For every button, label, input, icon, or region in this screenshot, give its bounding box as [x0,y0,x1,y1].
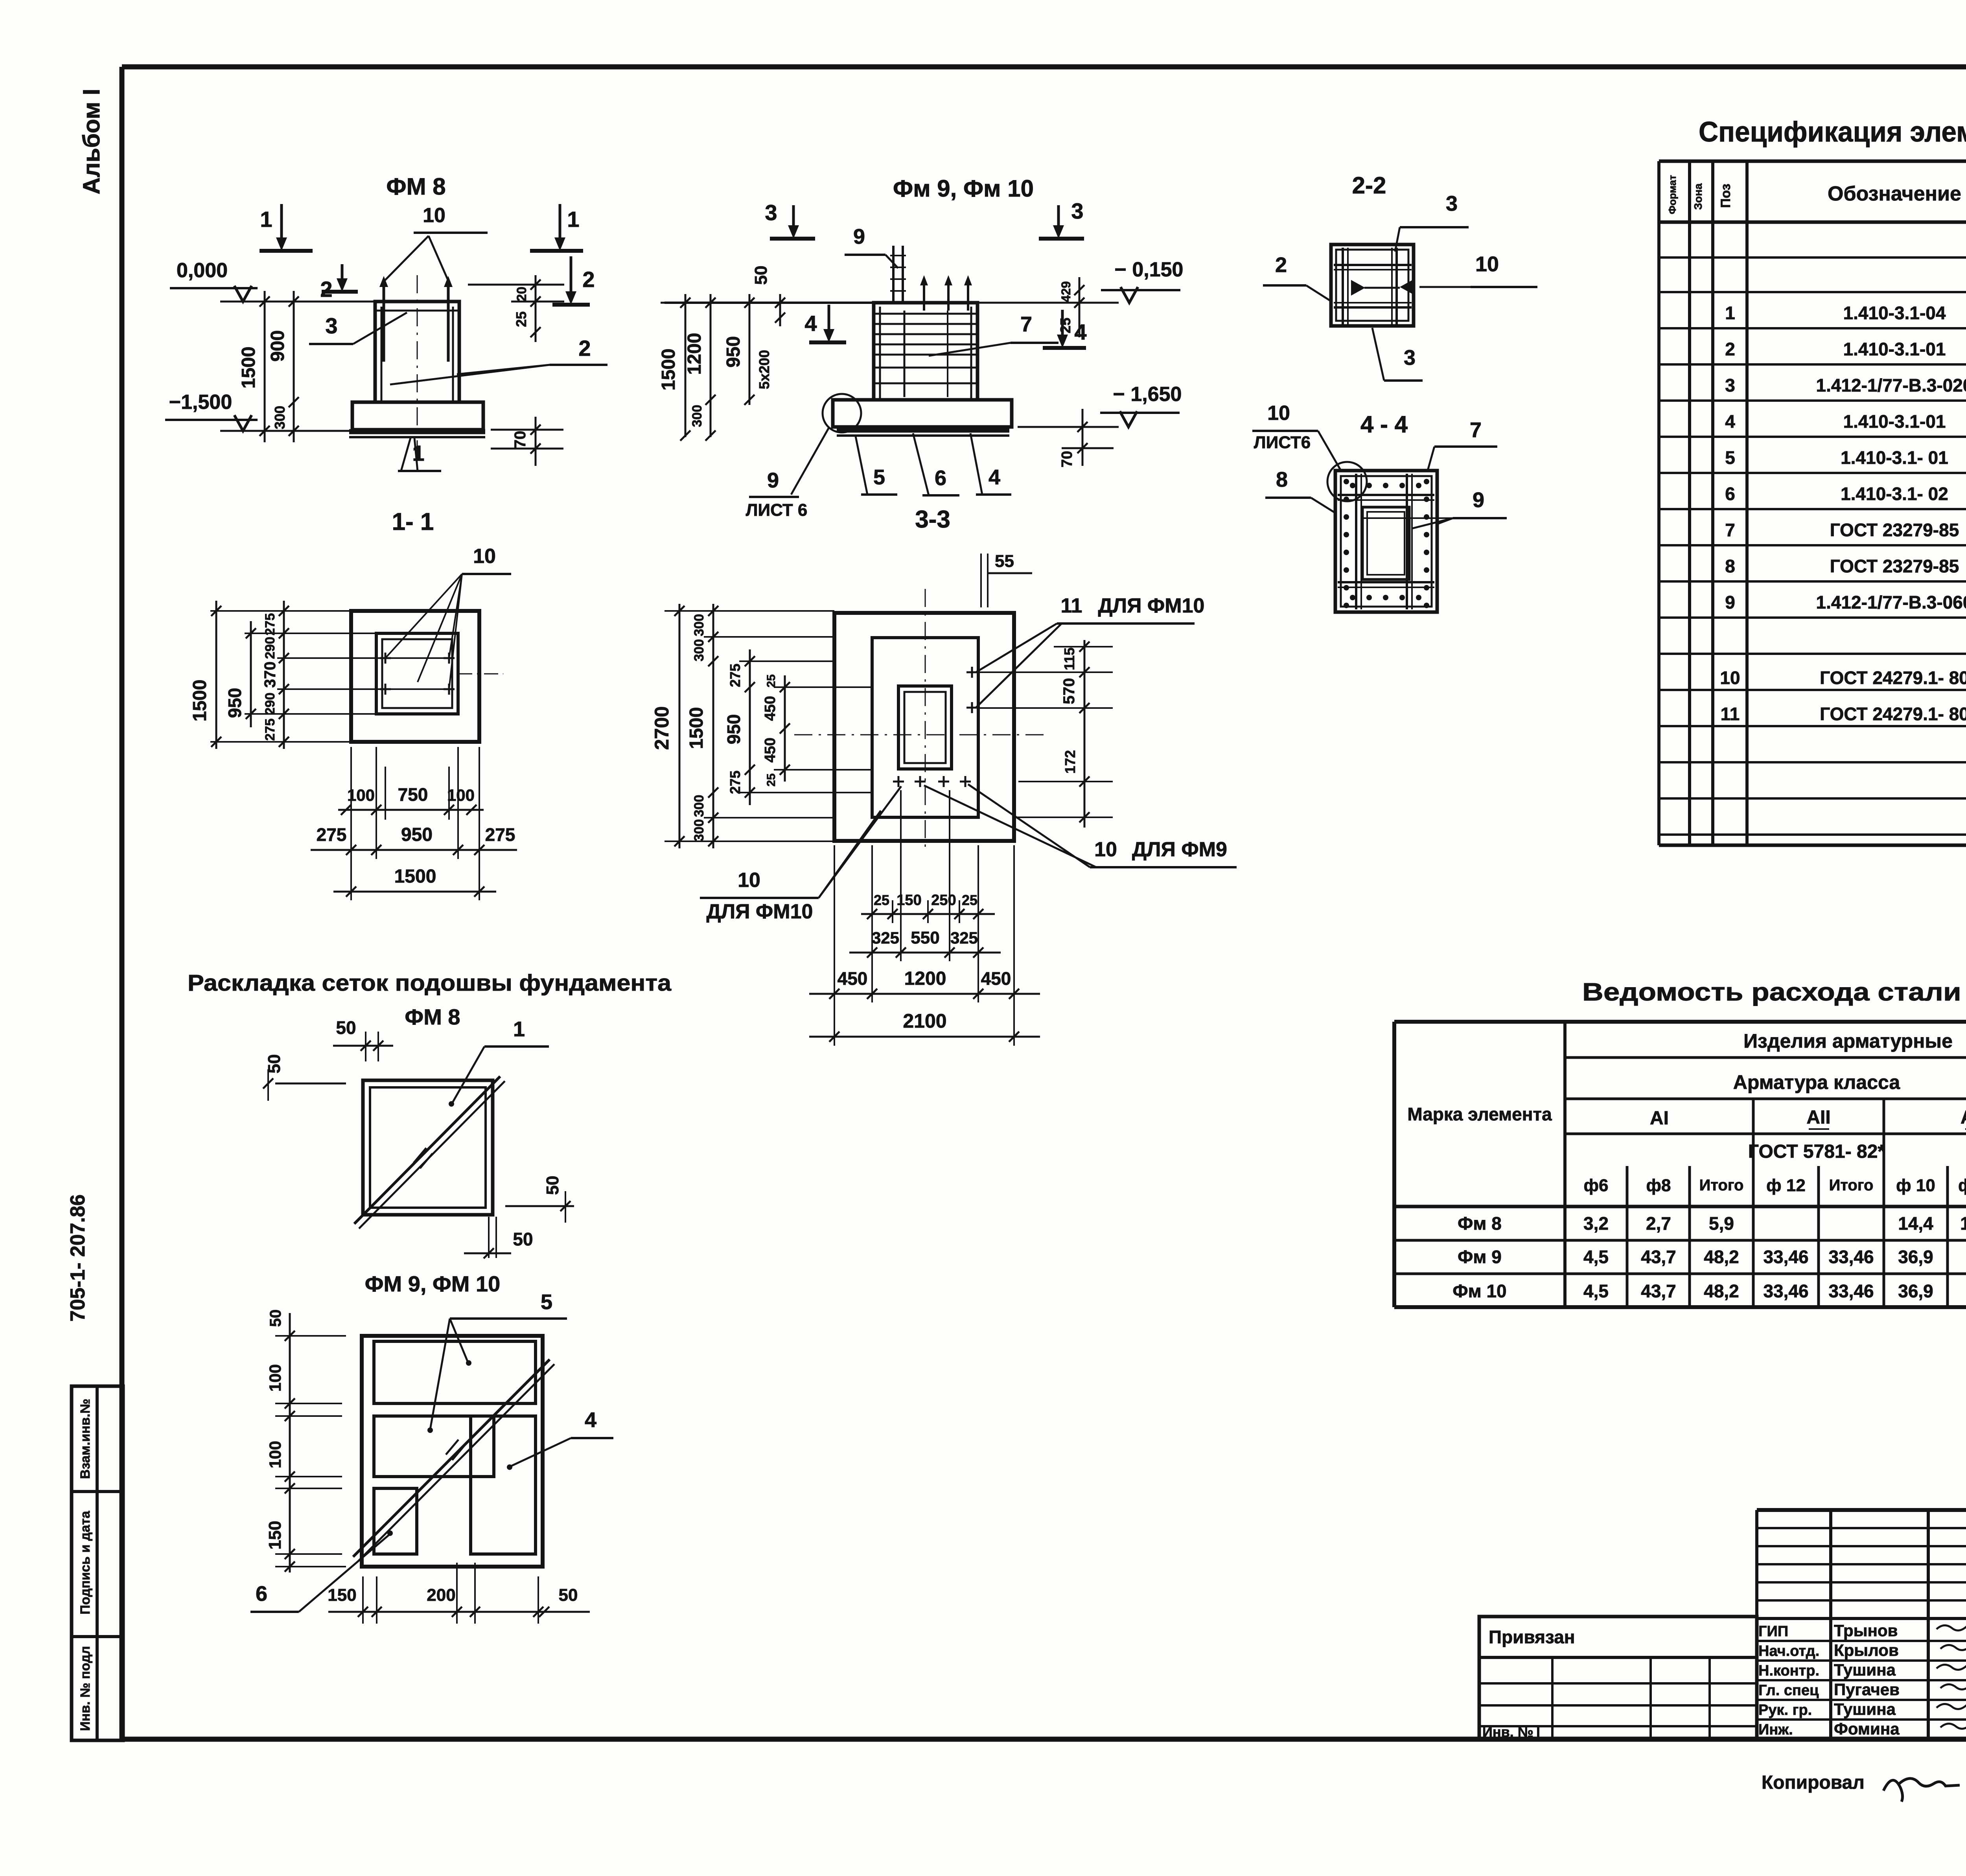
svg-text:50: 50 [513,1229,533,1249]
svg-text:11: 11 [1061,594,1082,617]
svg-text:33,46: 33,46 [1763,1247,1808,1267]
plan 1-1 outer square [351,611,479,742]
svg-text:70: 70 [1059,451,1075,467]
svg-text:3: 3 [1071,199,1083,223]
svg-text:Подпись и дата: Подпись и дата [78,1510,93,1615]
svg-text:1500: 1500 [394,866,436,887]
svg-text:10: 10 [423,204,445,227]
dim 70 bottom right [535,417,537,466]
svg-text:900: 900 [267,330,288,362]
svg-text:5,9: 5,9 [1709,1213,1734,1234]
svg-text:ф 10: ф 10 [1896,1176,1935,1195]
svg-text:55: 55 [995,552,1014,571]
FM8 axis line [417,275,418,458]
svg-text:25: 25 [513,311,529,327]
svg-text:Взам.инв.№: Взам.инв.№ [78,1399,93,1479]
svg-text:Привязан: Привязан [1489,1627,1575,1647]
FM8 mesh square [363,1080,493,1215]
svg-text:Копировал: Копировал [1762,1772,1865,1793]
svg-text:300: 300 [272,406,288,429]
svg-text:10: 10 [1720,668,1740,688]
svg-text:ФМ 8: ФМ 8 [405,1004,460,1029]
svg-text:10: 10 [1475,252,1499,276]
svg-text:275: 275 [727,664,743,687]
plan 3-3 inset [872,638,978,817]
plan 1-1 bolts [380,657,391,659]
svg-text:Поз: Поз [1718,184,1733,208]
svg-text:ф 12: ф 12 [1766,1176,1806,1195]
plan 1-1 bottom dims [338,809,484,811]
svg-text:2100: 2100 [903,1010,946,1032]
svg-text:150: 150 [265,1521,285,1549]
svg-text:1500: 1500 [686,707,707,749]
svg-text:7: 7 [1020,313,1032,336]
svg-text:3: 3 [325,313,337,338]
mesh 9 sticking up [892,246,895,303]
svg-text:Арматура класса: Арматура класса [1733,1071,1901,1093]
4-4 mesh rect [1335,471,1437,612]
plan 1-1 ext lines bottom [350,747,352,900]
svg-text:325: 325 [872,929,899,947]
pillar body [874,303,977,400]
pривязан block [1479,1617,1757,1739]
steel table grid [1394,1020,1966,1024]
svg-text:ЛИСТ6: ЛИСТ6 [1254,433,1311,452]
svg-text:43,7: 43,7 [1641,1247,1676,1267]
svg-text:ф8: ф8 [1646,1176,1671,1195]
svg-text:7: 7 [1470,418,1482,442]
svg-text:ДЛЯ ФМ10: ДЛЯ ФМ10 [707,900,813,923]
svg-text:3: 3 [1725,375,1735,395]
svg-text:50: 50 [267,1310,284,1327]
svg-text:Ведомость расхода стали на: Ведомость расхода стали на элемент, кг [1582,978,1966,1006]
svg-text:Фомина: Фомина [1834,1720,1900,1738]
svg-text:25: 25 [874,892,889,908]
small dims right of column top [535,275,537,342]
svg-text:1.410-3.1-01: 1.410-3.1-01 [1843,411,1946,432]
svg-text:25: 25 [1057,318,1073,333]
svg-text:А III: А III [1960,1107,1966,1128]
svg-text:3,2: 3,2 [1583,1213,1609,1234]
plan 1-1 pillar [376,633,458,714]
svg-text:6: 6 [935,466,946,490]
svg-text:370: 370 [261,662,279,688]
svg-text:275: 275 [263,719,278,741]
svg-text:1: 1 [513,1017,525,1041]
detail circle [823,394,861,432]
svg-text:Тушина: Тушина [1834,1700,1896,1718]
svg-text:10: 10 [473,545,496,568]
svg-text:275: 275 [485,824,515,845]
svg-text:Трынов: Трынов [1834,1621,1898,1640]
svg-text:450: 450 [838,968,868,989]
svg-text:300: 300 [692,795,707,817]
svg-text:2: 2 [582,267,595,292]
svg-text:1.410-3.1- 01: 1.410-3.1- 01 [1841,447,1948,468]
sheet frame [122,64,1966,70]
svg-text:Итого: Итого [1699,1177,1744,1194]
svg-text:950: 950 [225,688,245,718]
svg-text:Пугачев: Пугачев [1834,1680,1900,1699]
FM9/10 left dims [289,1313,291,1573]
svg-text:36,9: 36,9 [1898,1281,1933,1301]
svg-text:200: 200 [427,1585,455,1605]
4-4 rebar dots [1344,479,1349,484]
svg-text:290: 290 [263,693,278,715]
svg-text:50: 50 [336,1017,356,1038]
svg-text:8: 8 [1276,468,1288,491]
svg-text:25: 25 [765,674,778,687]
svg-text:ГОСТ 24279.1- 80: ГОСТ 24279.1- 80 [1820,704,1966,724]
svg-text:Крылов: Крылов [1834,1641,1899,1659]
svg-text:300: 300 [690,405,705,427]
plan 3-3 axes [925,589,926,850]
svg-text:Рук. гр.: Рук. гр. [1758,1702,1812,1718]
svg-text:9: 9 [1725,592,1735,612]
svg-text:2: 2 [578,336,591,360]
svg-text:ГИП: ГИП [1758,1623,1788,1640]
svg-text:АI: АI [1650,1108,1669,1129]
plan 3-3 bolts [966,671,977,673]
svg-text:100: 100 [447,786,475,804]
FM9/10 long diagonal [353,1359,550,1557]
dim 55 top [980,554,982,607]
2-2 mesh square [1331,245,1414,326]
svg-text:9: 9 [853,225,865,248]
svg-text:ФМ 8: ФМ 8 [386,173,445,200]
svg-text:100: 100 [266,1364,284,1392]
svg-text:0,000: 0,000 [177,259,228,282]
svg-text:570: 570 [1060,678,1078,704]
svg-text:Зона: Зона [1692,183,1704,210]
svg-text:Обозначение: Обозначение [1828,182,1961,205]
svg-text:290: 290 [263,637,278,659]
svg-text:550: 550 [911,928,939,947]
FM8 mesh diagonal [354,1076,500,1224]
svg-text:20: 20 [514,287,529,302]
svg-text:705-1- 207.86: 705-1- 207.86 [66,1194,89,1322]
svg-text:Инв. №: Инв. № [1482,1724,1533,1740]
svg-text:Итого: Итого [1829,1177,1874,1194]
2-2 anchor plate triangles [1351,280,1365,296]
svg-text:115: 115 [1061,647,1077,670]
svg-text:11: 11 [1721,704,1740,724]
svg-text:1: 1 [567,207,579,232]
svg-text:429: 429 [1059,281,1073,302]
anchor bolts top [923,281,925,311]
svg-text:300: 300 [692,614,707,636]
svg-text:−1,500: −1,500 [169,391,232,414]
svg-text:1: 1 [1725,303,1735,323]
svg-text:275: 275 [317,824,347,845]
svg-text:6: 6 [256,1582,267,1606]
svg-text:Гл. спец: Гл. спец [1758,1682,1819,1699]
svg-text:5: 5 [1725,447,1735,468]
svg-text:950: 950 [723,336,744,368]
svg-text:450: 450 [762,738,779,762]
specification table grid [1659,160,1966,163]
svg-text:33,46: 33,46 [1828,1247,1874,1267]
svg-text:4,5: 4,5 [1583,1247,1609,1267]
svg-text:7: 7 [1725,520,1735,540]
svg-text:950: 950 [723,714,744,745]
svg-text:9: 9 [767,469,779,492]
svg-text:10: 10 [1267,402,1290,425]
svg-text:Формат: Формат [1666,175,1678,214]
svg-text:172: 172 [1062,750,1078,774]
svg-text:3: 3 [1404,346,1416,370]
svg-text:48,2: 48,2 [1704,1247,1739,1267]
svg-text:275: 275 [727,771,743,794]
svg-text:Фм 10: Фм 10 [1452,1281,1506,1301]
svg-text:36,9: 36,9 [1898,1247,1933,1267]
svg-text:1- 1: 1- 1 [392,508,434,535]
svg-text:ДЛЯ ФМ9: ДЛЯ ФМ9 [1132,838,1227,861]
svg-text:33,46: 33,46 [1828,1281,1874,1301]
svg-text:1.410-3.1-01: 1.410-3.1-01 [1843,339,1946,359]
plan 3-3 pillar [898,686,952,769]
svg-text:6: 6 [1725,484,1735,504]
svg-text:50: 50 [751,266,771,285]
svg-text:ГОСТ 23279-85: ГОСТ 23279-85 [1830,520,1959,540]
svg-text:Инв. № подл: Инв. № подл [78,1646,93,1731]
svg-text:ГОСТ 5781- 82*: ГОСТ 5781- 82* [1748,1141,1885,1162]
svg-text:Фм 9: Фм 9 [1458,1247,1502,1267]
svg-text:300: 300 [692,639,707,662]
svg-text:48,2: 48,2 [1704,1281,1739,1301]
svg-text:4: 4 [1074,320,1086,344]
svg-text:4: 4 [804,311,817,336]
svg-text:5: 5 [873,465,885,489]
svg-text:1.412-1/77-В.3-060: 1.412-1/77-В.3-060 [1816,592,1966,612]
svg-text:1.410-3.1- 02: 1.410-3.1- 02 [1841,484,1948,504]
FM8 anchor bolts [383,281,385,362]
svg-text:1500: 1500 [190,680,210,722]
svg-text:1: 1 [260,207,272,232]
svg-text:70: 70 [512,431,529,449]
svg-text:Н.контр.: Н.контр. [1758,1663,1819,1679]
svg-text:ФМ 9, ФМ 10: ФМ 9, ФМ 10 [365,1271,501,1296]
plan 1-1 bolt lines [277,657,450,659]
svg-text:− 1,650: − 1,650 [1113,383,1182,406]
svg-text:Марка элемента: Марка элемента [1407,1104,1552,1124]
plan 3-3 right dims [1084,640,1086,828]
svg-text:4,5: 4,5 [1583,1281,1609,1301]
svg-text:4 - 4: 4 - 4 [1360,411,1408,438]
svg-text:10: 10 [738,869,760,892]
plan 1-1 axis [458,673,503,675]
svg-text:2,7: 2,7 [1646,1213,1671,1234]
plan 1-1 ext lines left [210,610,351,612]
svg-text:5х200: 5х200 [756,350,772,389]
svg-text:10: 10 [1094,838,1117,861]
svg-text:14,4: 14,4 [1898,1213,1933,1234]
plan 3-3 left dims [679,604,681,848]
svg-text:Изделия арматурные: Изделия арматурные [1743,1030,1953,1052]
FM8 footing [352,402,483,430]
svg-text:9: 9 [1473,488,1484,512]
svg-text:100: 100 [266,1441,284,1468]
svg-text:3: 3 [765,200,777,225]
svg-text:450: 450 [762,696,779,721]
4-4 inner opening [1362,507,1409,579]
svg-text:2: 2 [320,277,332,302]
svg-text:4: 4 [989,465,1000,489]
svg-text:ГОСТ 24279.1- 80: ГОСТ 24279.1- 80 [1820,668,1966,688]
svg-text:2: 2 [1725,339,1735,359]
diagonal break mark [414,1148,426,1163]
svg-text:3: 3 [1446,192,1458,215]
svg-text:1.412-1/77-В.3-020: 1.412-1/77-В.3-020 [1816,375,1966,395]
svg-text:− 0,150: − 0,150 [1115,258,1184,281]
svg-text:5: 5 [541,1290,552,1314]
svg-text:Спецификация элементов монол: Спецификация элементов монолитной констр… [1699,116,1966,148]
svg-text:8: 8 [1725,556,1735,576]
plan 3-3 bottom dims [861,913,995,915]
FM9/10 mesh outer [362,1336,543,1567]
svg-text:2-2: 2-2 [1352,172,1386,199]
plan 1-1 left dims [215,601,217,749]
FM9/10 mesh sheets [374,1341,536,1403]
svg-text:ф6: ф6 [1584,1176,1609,1195]
svg-text:ДЛЯ ФМ10: ДЛЯ ФМ10 [1098,594,1205,617]
svg-text:ф 12: ф 12 [1958,1176,1966,1195]
svg-text:2700: 2700 [651,706,673,750]
svg-text:33,46: 33,46 [1763,1281,1808,1301]
FM8 column body [375,302,459,402]
svg-text:1500: 1500 [238,347,259,389]
plan 3-3 outer [834,613,1014,841]
svg-text:1200: 1200 [684,333,705,375]
footing FM9 [833,400,1012,427]
svg-text:4: 4 [1725,411,1735,432]
svg-text:450: 450 [981,968,1011,989]
svg-text:1200: 1200 [904,968,946,989]
FM9/10 bottom dims [328,1611,590,1613]
svg-text:Альбом I: Альбом I [78,89,105,195]
plan 3-3 ext lines left [665,610,834,612]
svg-text:25: 25 [765,773,778,786]
plan 3-3 ext lines bottom [834,845,835,1046]
4-4 detail circle [1327,462,1367,501]
svg-text:300: 300 [692,819,707,842]
svg-text:4: 4 [585,1408,596,1432]
svg-text:Инж.: Инж. [1758,1722,1793,1738]
svg-text:325: 325 [950,929,978,947]
svg-text:АII: АII [1806,1107,1830,1128]
svg-text:Нач.отд.: Нач.отд. [1758,1643,1819,1659]
svg-text:3-3: 3-3 [915,506,950,533]
svg-text:2: 2 [1275,253,1287,277]
svg-text:750: 750 [398,784,428,805]
svg-text:25: 25 [962,892,977,908]
svg-text:150: 150 [328,1585,356,1605]
svg-text:ЛИСТ 6: ЛИСТ 6 [746,500,808,520]
FM8 vertical dimension lines [264,291,266,442]
svg-text:950: 950 [401,824,433,845]
svg-text:1.410-3.1-04: 1.410-3.1-04 [1843,303,1946,323]
title block signature grid [1757,1508,1966,1512]
svg-text:Фм 8: Фм 8 [1458,1213,1502,1234]
FM9 left dims [685,294,687,437]
svg-text:Фм 9, Фм 10: Фм 9, Фм 10 [893,175,1034,202]
svg-text:ГОСТ 23279-85: ГОСТ 23279-85 [1830,556,1959,576]
svg-text:43,7: 43,7 [1641,1281,1676,1301]
svg-text:50: 50 [543,1176,562,1195]
svg-text:275: 275 [263,613,278,636]
svg-text:250: 250 [931,892,956,909]
svg-text:Тушина: Тушина [1834,1661,1896,1679]
svg-text:Раскладка сеток подошвы фун: Раскладка сеток подошвы фундамента [188,970,672,996]
svg-text:50: 50 [559,1585,578,1605]
svg-text:12,8: 12,8 [1960,1213,1966,1234]
margin stamp boxes [72,1386,123,1740]
ground line [665,302,874,304]
svg-text:1500: 1500 [658,349,679,391]
